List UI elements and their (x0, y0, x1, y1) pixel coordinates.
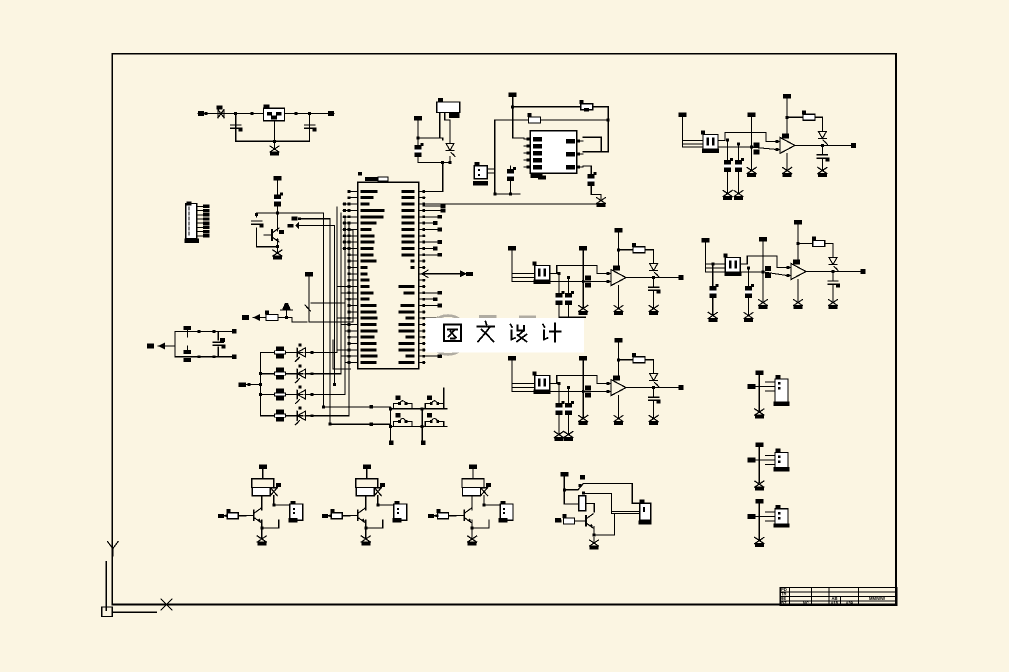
svg-text:#39: #39 (846, 600, 854, 605)
svg-text:BZ: BZ (781, 600, 787, 605)
svg-text:NC: NC (803, 600, 809, 605)
svg-text:#18: #18 (831, 600, 839, 605)
svg-text:MM/WW: MM/WW (869, 596, 885, 601)
